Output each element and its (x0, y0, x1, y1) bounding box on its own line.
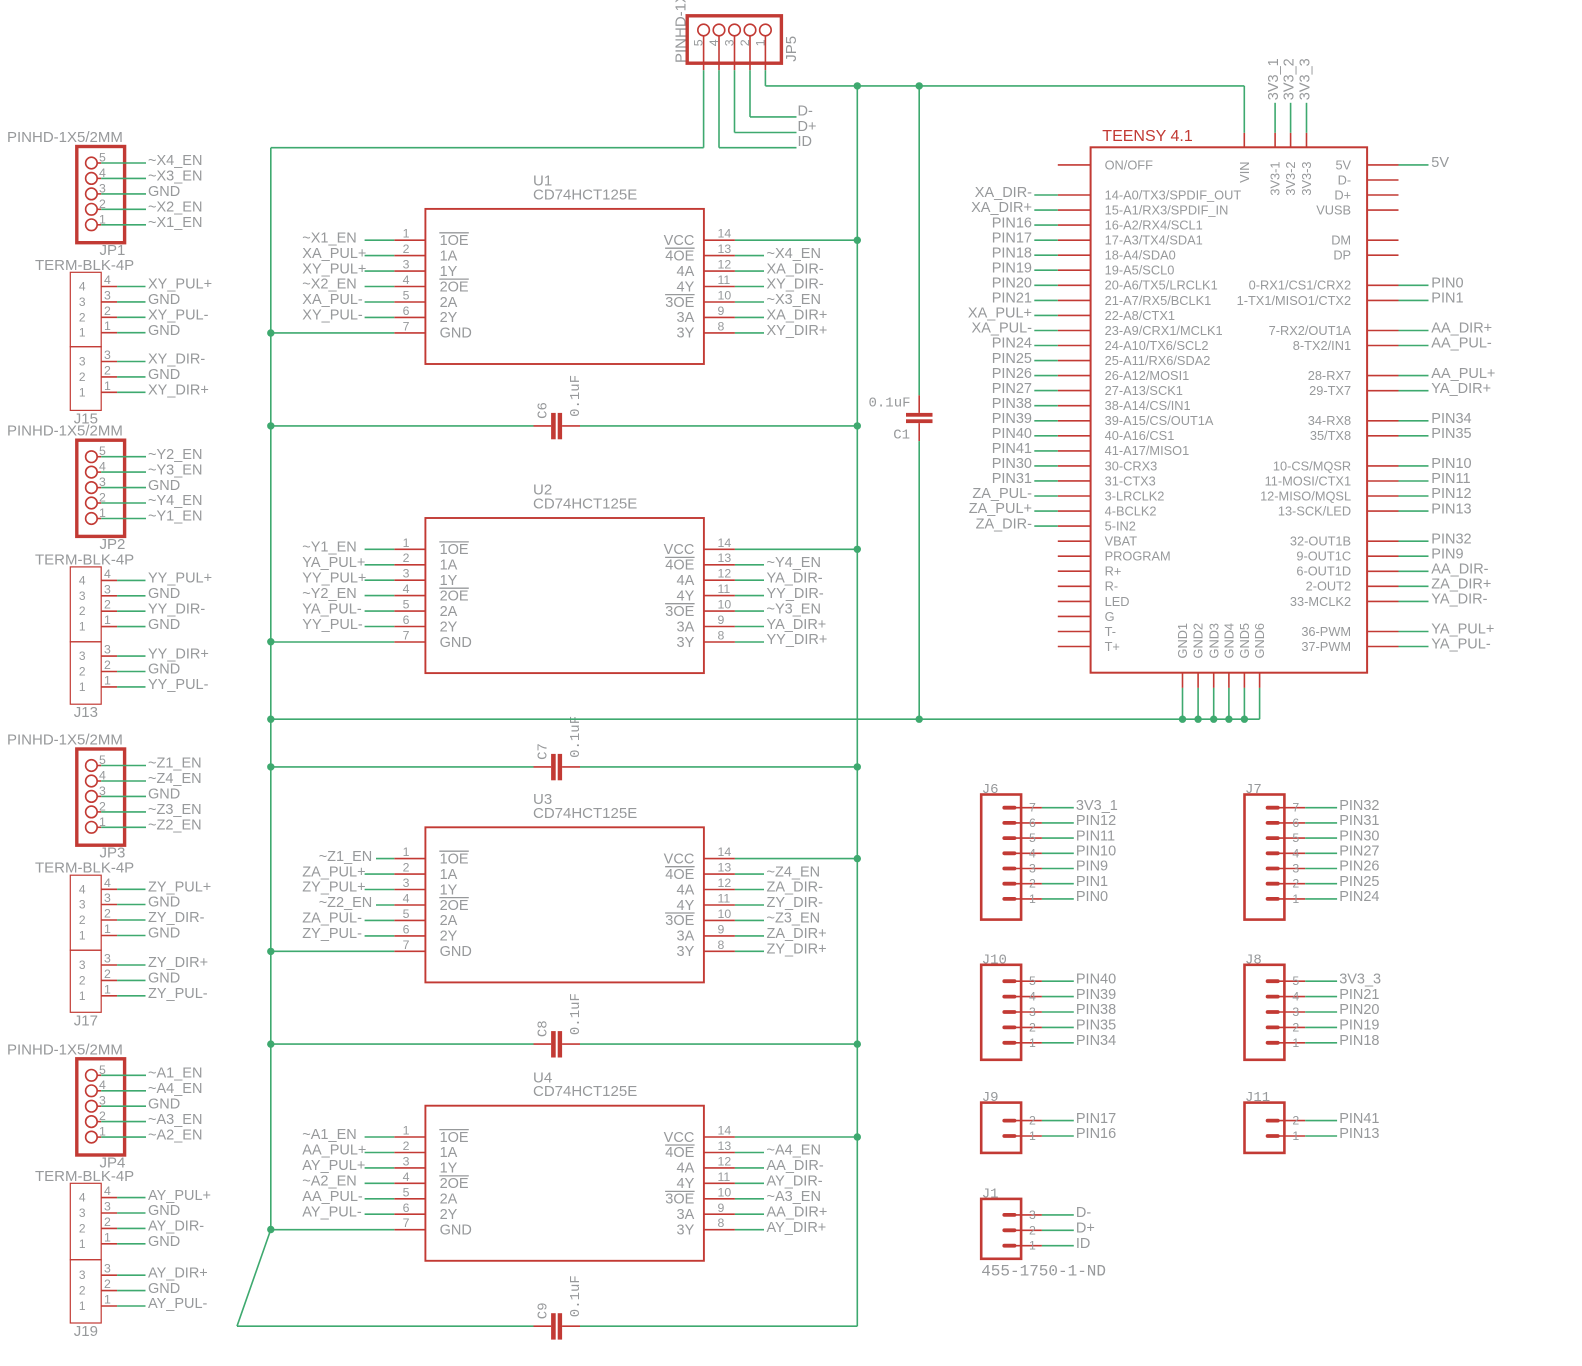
svg-text:J7: J7 (1245, 782, 1262, 798)
svg-text:1A: 1A (440, 558, 458, 574)
svg-text:GND2: GND2 (1191, 623, 1206, 659)
svg-text:YY_DIR-: YY_DIR- (767, 586, 824, 602)
svg-text:2A: 2A (440, 604, 458, 620)
svg-text:TEENSY 4.1: TEENSY 4.1 (1102, 128, 1193, 145)
svg-text:J10: J10 (982, 952, 1007, 968)
svg-text:YA_DIR+: YA_DIR+ (1431, 381, 1491, 397)
svg-text:12: 12 (718, 567, 732, 581)
svg-text:~X1_EN: ~X1_EN (148, 215, 202, 231)
svg-text:XY_DIR-: XY_DIR- (767, 277, 824, 293)
svg-text:7-RX2/OUT1A: 7-RX2/OUT1A (1269, 323, 1352, 338)
svg-text:4OE: 4OE (665, 1145, 694, 1161)
svg-text:PIN34: PIN34 (1076, 1033, 1116, 1049)
svg-text:16-A2/RX4/SCL1: 16-A2/RX4/SCL1 (1105, 218, 1203, 233)
svg-text:2: 2 (1029, 1020, 1036, 1034)
svg-text:14-A0/TX3/SPDIF_OUT: 14-A0/TX3/SPDIF_OUT (1105, 187, 1242, 202)
svg-text:4Y: 4Y (677, 588, 695, 604)
svg-text:AA_DIR+: AA_DIR+ (1431, 321, 1492, 337)
svg-text:1: 1 (1029, 1239, 1036, 1253)
svg-text:2Y: 2Y (440, 619, 458, 635)
svg-text:~Y2_EN: ~Y2_EN (302, 586, 356, 602)
svg-text:VCC: VCC (664, 542, 695, 558)
svg-text:27-A13/SCK1: 27-A13/SCK1 (1105, 383, 1183, 398)
svg-text:38-A14/CS/IN1: 38-A14/CS/IN1 (1105, 398, 1191, 413)
svg-text:TERM-BLK-4P: TERM-BLK-4P (35, 257, 134, 274)
svg-text:XA_PUL-: XA_PUL- (302, 292, 363, 308)
svg-text:1: 1 (79, 929, 86, 943)
svg-text:12-MISO/MQSL: 12-MISO/MQSL (1260, 488, 1351, 503)
svg-text:2OE: 2OE (440, 898, 469, 914)
svg-text:1: 1 (403, 227, 410, 241)
svg-text:PIN24: PIN24 (992, 336, 1032, 352)
svg-text:PIN13: PIN13 (1339, 1126, 1379, 1142)
svg-text:3OE: 3OE (665, 913, 694, 929)
svg-text:2A: 2A (440, 913, 458, 929)
svg-text:YA_PUL+: YA_PUL+ (1431, 622, 1494, 638)
svg-text:0.1uF: 0.1uF (568, 1275, 584, 1317)
svg-text:3: 3 (1029, 1005, 1036, 1019)
svg-text:1: 1 (1029, 892, 1036, 906)
svg-text:PIN41: PIN41 (1339, 1111, 1379, 1127)
svg-text:PIN31: PIN31 (992, 471, 1032, 487)
svg-text:~X2_EN: ~X2_EN (302, 277, 356, 293)
svg-text:J8: J8 (1245, 952, 1262, 968)
svg-text:PIN35: PIN35 (1076, 1018, 1116, 1034)
svg-text:D-: D- (798, 103, 813, 119)
svg-text:D+: D+ (1076, 1221, 1095, 1237)
svg-text:3: 3 (104, 1200, 111, 1214)
svg-text:1: 1 (403, 845, 410, 859)
svg-text:XA_DIR+: XA_DIR+ (767, 308, 828, 324)
svg-text:AY_PUL-: AY_PUL- (302, 1205, 362, 1221)
svg-text:4OE: 4OE (665, 248, 694, 264)
svg-text:2: 2 (1029, 877, 1036, 891)
svg-text:PIN26: PIN26 (1339, 859, 1379, 875)
svg-text:3: 3 (104, 952, 111, 966)
svg-text:CD74HCT125E: CD74HCT125E (533, 496, 637, 513)
svg-text:4: 4 (104, 1184, 111, 1198)
svg-text:TERM-BLK-4P: TERM-BLK-4P (35, 860, 134, 877)
svg-text:PIN1: PIN1 (1076, 874, 1108, 890)
svg-text:PIN17: PIN17 (1076, 1111, 1116, 1127)
svg-text:2: 2 (104, 598, 111, 612)
svg-text:2: 2 (1292, 1020, 1299, 1034)
svg-text:AA_PUL-: AA_PUL- (1431, 336, 1492, 352)
svg-text:4: 4 (104, 567, 111, 581)
svg-text:3: 3 (1292, 1005, 1299, 1019)
svg-text:GND: GND (148, 617, 180, 633)
svg-text:PIN13: PIN13 (1431, 501, 1471, 517)
svg-text:2: 2 (104, 658, 111, 672)
svg-text:R-: R- (1105, 579, 1119, 594)
svg-text:PIN27: PIN27 (992, 381, 1032, 397)
svg-text:25-A11/RX6/SDA2: 25-A11/RX6/SDA2 (1105, 353, 1211, 368)
svg-text:9-OUT1C: 9-OUT1C (1296, 549, 1351, 564)
svg-text:13: 13 (718, 242, 732, 256)
svg-text:1: 1 (104, 379, 111, 393)
svg-text:J6: J6 (982, 782, 999, 798)
svg-text:PIN16: PIN16 (1076, 1126, 1116, 1142)
svg-text:AY_DIR+: AY_DIR+ (148, 1265, 208, 1281)
svg-text:24-A10/TX6/SCL2: 24-A10/TX6/SCL2 (1105, 338, 1209, 353)
svg-text:3: 3 (104, 1262, 111, 1276)
svg-text:34-RX8: 34-RX8 (1308, 413, 1351, 428)
svg-text:AA_DIR-: AA_DIR- (767, 1158, 824, 1174)
svg-text:1: 1 (104, 673, 111, 687)
svg-text:PIN9: PIN9 (1076, 859, 1108, 875)
svg-text:7: 7 (1029, 801, 1036, 815)
svg-text:39-A15/CS/OUT1A: 39-A15/CS/OUT1A (1105, 413, 1214, 428)
svg-text:~A3_EN: ~A3_EN (767, 1189, 821, 1205)
svg-text:XA_PUL-: XA_PUL- (972, 321, 1033, 337)
svg-text:GND: GND (148, 184, 180, 200)
svg-text:PIN19: PIN19 (1339, 1018, 1379, 1034)
svg-text:~X3_EN: ~X3_EN (148, 169, 202, 185)
svg-text:14: 14 (718, 845, 732, 859)
svg-text:1: 1 (79, 620, 86, 634)
svg-text:2: 2 (1029, 1223, 1036, 1237)
svg-text:4-BCLK2: 4-BCLK2 (1105, 504, 1157, 519)
svg-text:~A2_EN: ~A2_EN (148, 1127, 202, 1143)
svg-text:1: 1 (1292, 1036, 1299, 1050)
svg-text:1A: 1A (440, 1145, 458, 1161)
svg-text:8-TX2/IN1: 8-TX2/IN1 (1293, 338, 1351, 353)
svg-text:1: 1 (1292, 892, 1299, 906)
svg-text:2: 2 (79, 665, 86, 679)
svg-text:ZA_DIR+: ZA_DIR+ (767, 926, 827, 942)
svg-text:TERM-BLK-4P: TERM-BLK-4P (35, 551, 134, 568)
svg-text:2: 2 (79, 370, 86, 384)
svg-text:1OE: 1OE (440, 851, 469, 867)
svg-text:ZA_DIR-: ZA_DIR- (767, 880, 824, 896)
svg-text:11: 11 (718, 892, 731, 906)
svg-text:8: 8 (718, 319, 725, 333)
svg-text:7: 7 (403, 1216, 410, 1230)
svg-text:10: 10 (718, 1185, 732, 1199)
svg-text:~A4_EN: ~A4_EN (148, 1081, 202, 1097)
svg-text:5: 5 (403, 1185, 410, 1199)
svg-text:J13: J13 (74, 704, 98, 721)
svg-text:1-TX1/MISO1/CTX2: 1-TX1/MISO1/CTX2 (1237, 293, 1352, 308)
svg-text:5V: 5V (1431, 155, 1449, 171)
svg-text:XY_PUL-: XY_PUL- (148, 308, 209, 324)
svg-text:12: 12 (718, 258, 732, 272)
svg-text:4: 4 (79, 1191, 86, 1205)
svg-text:1: 1 (79, 1237, 86, 1251)
svg-text:9: 9 (718, 304, 725, 318)
svg-text:PIN19: PIN19 (992, 260, 1032, 276)
svg-text:AY_PUL+: AY_PUL+ (148, 1188, 211, 1204)
svg-text:0.1uF: 0.1uF (568, 375, 584, 417)
svg-text:4: 4 (79, 280, 86, 294)
svg-text:3V3-1: 3V3-1 (1268, 162, 1283, 196)
svg-text:0-RX1/CS1/CRX2: 0-RX1/CS1/CRX2 (1249, 278, 1351, 293)
svg-text:XY_PUL+: XY_PUL+ (148, 277, 212, 293)
svg-text:D-: D- (1338, 172, 1352, 187)
svg-text:2: 2 (104, 304, 111, 318)
svg-text:1OE: 1OE (440, 233, 469, 249)
svg-text:1Y: 1Y (440, 264, 458, 280)
svg-text:4: 4 (104, 876, 111, 890)
svg-text:ZY_DIR+: ZY_DIR+ (767, 942, 827, 958)
svg-text:7: 7 (403, 938, 410, 952)
svg-text:XA_DIR+: XA_DIR+ (971, 200, 1032, 216)
svg-text:LED: LED (1105, 594, 1130, 609)
svg-text:AY_PUL+: AY_PUL+ (302, 1158, 365, 1174)
svg-text:1: 1 (1029, 1129, 1036, 1143)
svg-text:PIN18: PIN18 (992, 245, 1032, 261)
svg-text:VUSB: VUSB (1316, 203, 1351, 218)
svg-text:2: 2 (403, 242, 410, 256)
svg-text:10: 10 (718, 598, 732, 612)
svg-text:8: 8 (718, 1216, 725, 1230)
svg-text:YA_PUL+: YA_PUL+ (302, 555, 365, 571)
svg-text:3OE: 3OE (665, 1192, 694, 1208)
svg-text:VIN: VIN (1237, 162, 1252, 183)
svg-text:CD74HCT125E: CD74HCT125E (533, 1083, 637, 1100)
svg-text:1: 1 (754, 39, 768, 46)
svg-text:GND: GND (148, 323, 180, 339)
svg-text:2: 2 (738, 39, 752, 46)
svg-text:PIN20: PIN20 (992, 276, 1032, 292)
svg-text:3-LRCLK2: 3-LRCLK2 (1105, 488, 1165, 503)
svg-text:3V3-2: 3V3-2 (1283, 162, 1298, 196)
svg-text:4Y: 4Y (677, 1176, 695, 1192)
svg-text:PIN11: PIN11 (1076, 828, 1115, 844)
svg-text:5: 5 (403, 907, 410, 921)
svg-text:2: 2 (79, 310, 86, 324)
svg-text:ZA_PUL+: ZA_PUL+ (969, 501, 1032, 517)
svg-text:GND: GND (148, 1096, 180, 1112)
svg-text:2: 2 (79, 1221, 86, 1235)
svg-text:~A4_EN: ~A4_EN (767, 1143, 821, 1159)
svg-text:40-A16/CS1: 40-A16/CS1 (1105, 428, 1175, 443)
svg-text:5: 5 (1292, 831, 1299, 845)
svg-text:~Y1_EN: ~Y1_EN (148, 509, 202, 525)
svg-text:R+: R+ (1105, 564, 1122, 579)
svg-text:2OE: 2OE (440, 588, 469, 604)
svg-text:13-SCK/LED: 13-SCK/LED (1278, 504, 1351, 519)
svg-text:5: 5 (1292, 974, 1299, 988)
svg-text:CD74HCT125E: CD74HCT125E (533, 186, 637, 203)
svg-text:1: 1 (104, 613, 111, 627)
svg-text:PROGRAM: PROGRAM (1105, 549, 1171, 564)
svg-text:GND3: GND3 (1206, 623, 1221, 659)
svg-text:PIN10: PIN10 (1076, 844, 1116, 860)
svg-text:GND1: GND1 (1175, 623, 1190, 659)
svg-text:6: 6 (1029, 816, 1036, 830)
svg-text:J11: J11 (1245, 1090, 1270, 1106)
svg-text:3: 3 (79, 1206, 86, 1220)
svg-text:ON/OFF: ON/OFF (1105, 157, 1154, 172)
svg-text:4A: 4A (677, 264, 695, 280)
svg-text:~X4_EN: ~X4_EN (148, 153, 202, 169)
svg-text:4: 4 (79, 882, 86, 896)
svg-text:GND: GND (148, 586, 180, 602)
svg-text:XY_DIR+: XY_DIR+ (148, 383, 209, 399)
svg-text:5: 5 (692, 39, 706, 46)
svg-text:5: 5 (1029, 831, 1036, 845)
svg-text:3OE: 3OE (665, 295, 694, 311)
svg-text:ID: ID (1076, 1236, 1091, 1252)
svg-text:AA_PUL+: AA_PUL+ (302, 1143, 366, 1159)
svg-text:VBAT: VBAT (1105, 534, 1138, 549)
svg-text:33-MCLK2: 33-MCLK2 (1290, 594, 1351, 609)
svg-text:YY_PUL+: YY_PUL+ (302, 570, 366, 586)
svg-text:GND: GND (440, 1223, 472, 1239)
svg-text:ZA_PUL-: ZA_PUL- (302, 911, 362, 927)
svg-text:ZA_PUL-: ZA_PUL- (972, 486, 1032, 502)
svg-text:455-1750-1-ND: 455-1750-1-ND (981, 1263, 1106, 1281)
svg-text:AA_PUL+: AA_PUL+ (1431, 366, 1495, 382)
svg-text:PIN20: PIN20 (1339, 1002, 1379, 1018)
svg-text:PIN39: PIN39 (992, 411, 1032, 427)
svg-text:C7: C7 (536, 743, 552, 760)
svg-text:35/TX8: 35/TX8 (1310, 428, 1351, 443)
svg-text:3: 3 (403, 567, 410, 581)
svg-text:2: 2 (1292, 1114, 1299, 1128)
svg-text:~X2_EN: ~X2_EN (148, 200, 202, 216)
svg-text:PIN41: PIN41 (992, 441, 1032, 457)
svg-text:2: 2 (79, 604, 86, 618)
svg-text:3V3_3: 3V3_3 (1339, 971, 1381, 987)
svg-text:3: 3 (79, 958, 86, 972)
svg-text:YY_DIR-: YY_DIR- (148, 601, 205, 617)
svg-text:18-A4/SDA0: 18-A4/SDA0 (1105, 248, 1176, 263)
svg-text:~A2_EN: ~A2_EN (302, 1174, 356, 1190)
svg-text:1: 1 (1292, 1129, 1299, 1143)
svg-text:2: 2 (403, 861, 410, 875)
svg-text:PIN12: PIN12 (1431, 486, 1471, 502)
svg-text:AA_DIR+: AA_DIR+ (767, 1205, 828, 1221)
svg-text:4A: 4A (677, 573, 695, 589)
svg-text:~Y2_EN: ~Y2_EN (148, 447, 202, 463)
svg-text:1A: 1A (440, 867, 458, 883)
svg-text:YY_PUL-: YY_PUL- (302, 617, 363, 633)
svg-text:3V3-3: 3V3-3 (1299, 162, 1314, 196)
svg-text:PIN38: PIN38 (1076, 1002, 1116, 1018)
svg-text:T-: T- (1105, 624, 1116, 639)
svg-text:3A: 3A (677, 929, 695, 945)
svg-text:XY_DIR+: XY_DIR+ (767, 323, 828, 339)
svg-text:1: 1 (79, 385, 86, 399)
svg-text:PIN35: PIN35 (1431, 426, 1471, 442)
svg-text:PIN18: PIN18 (1339, 1033, 1379, 1049)
svg-text:3V3_1: 3V3_1 (1076, 798, 1118, 814)
svg-text:PIN0: PIN0 (1076, 889, 1108, 905)
svg-text:~Y1_EN: ~Y1_EN (302, 540, 356, 556)
svg-text:28-RX7: 28-RX7 (1308, 368, 1351, 383)
svg-text:4: 4 (1029, 990, 1036, 1004)
svg-text:3: 3 (1292, 862, 1299, 876)
svg-text:ID: ID (798, 134, 813, 150)
svg-text:YA_DIR-: YA_DIR- (767, 570, 823, 586)
svg-text:4A: 4A (677, 882, 695, 898)
svg-text:12: 12 (718, 1154, 732, 1168)
svg-text:3: 3 (104, 348, 111, 362)
svg-text:J19: J19 (74, 1323, 98, 1340)
svg-text:PIN38: PIN38 (992, 396, 1032, 412)
svg-text:PIN24: PIN24 (1339, 889, 1379, 905)
svg-text:1: 1 (1029, 1036, 1036, 1050)
svg-text:C9: C9 (536, 1302, 552, 1319)
svg-text:3: 3 (1029, 1208, 1036, 1222)
svg-text:9: 9 (718, 922, 725, 936)
svg-text:8: 8 (718, 938, 725, 952)
svg-text:6-OUT1D: 6-OUT1D (1296, 564, 1351, 579)
svg-text:PIN12: PIN12 (1076, 813, 1116, 829)
svg-text:~A1_EN: ~A1_EN (148, 1066, 202, 1082)
svg-text:4: 4 (79, 573, 86, 587)
svg-text:6: 6 (403, 922, 410, 936)
svg-text:D+: D+ (798, 119, 817, 135)
svg-text:1: 1 (104, 922, 111, 936)
svg-text:4: 4 (1029, 846, 1036, 860)
svg-text:PIN30: PIN30 (992, 456, 1032, 472)
svg-text:2A: 2A (440, 295, 458, 311)
svg-text:XA_DIR-: XA_DIR- (767, 261, 824, 277)
svg-text:3A: 3A (677, 1207, 695, 1223)
svg-text:1: 1 (104, 982, 111, 996)
svg-text:J1: J1 (982, 1186, 999, 1202)
svg-text:1Y: 1Y (440, 1161, 458, 1177)
svg-text:1: 1 (79, 680, 86, 694)
svg-text:VCC: VCC (664, 851, 695, 867)
svg-text:ZA_DIR-: ZA_DIR- (976, 516, 1033, 532)
svg-text:14: 14 (718, 1124, 732, 1138)
svg-text:3Y: 3Y (677, 635, 695, 651)
svg-text:PIN25: PIN25 (1339, 874, 1379, 890)
svg-text:23-A9/CRX1/MCLK1: 23-A9/CRX1/MCLK1 (1105, 323, 1223, 338)
svg-text:YA_DIR+: YA_DIR+ (767, 617, 827, 633)
svg-text:3: 3 (104, 891, 111, 905)
svg-text:4: 4 (403, 582, 410, 596)
svg-text:3Y: 3Y (677, 1223, 695, 1239)
svg-text:~A3_EN: ~A3_EN (148, 1112, 202, 1128)
svg-text:~Z2_EN: ~Z2_EN (319, 895, 373, 911)
svg-text:YA_DIR-: YA_DIR- (1431, 592, 1487, 608)
svg-text:PIN25: PIN25 (992, 351, 1032, 367)
svg-text:2: 2 (403, 1139, 410, 1153)
svg-text:GND: GND (148, 1234, 180, 1250)
svg-text:3V3_3: 3V3_3 (1297, 58, 1313, 100)
svg-text:4OE: 4OE (665, 867, 694, 883)
svg-text:XY_DIR-: XY_DIR- (148, 352, 205, 368)
svg-text:1: 1 (104, 319, 111, 333)
svg-text:22-A8/CTX1: 22-A8/CTX1 (1105, 308, 1175, 323)
svg-text:PIN11: PIN11 (1431, 471, 1470, 487)
svg-text:14: 14 (718, 227, 732, 241)
svg-text:ZY_DIR-: ZY_DIR- (767, 895, 824, 911)
svg-text:4: 4 (403, 273, 410, 287)
svg-text:11: 11 (718, 273, 731, 287)
svg-text:PIN40: PIN40 (992, 426, 1032, 442)
svg-text:YY_DIR+: YY_DIR+ (767, 632, 828, 648)
svg-text:3OE: 3OE (665, 604, 694, 620)
svg-text:PIN32: PIN32 (1339, 798, 1379, 814)
svg-text:4Y: 4Y (677, 279, 695, 295)
svg-text:7: 7 (403, 629, 410, 643)
svg-text:3: 3 (1029, 862, 1036, 876)
svg-text:XY_PUL+: XY_PUL+ (302, 261, 366, 277)
svg-text:6: 6 (403, 613, 410, 627)
svg-text:3V3_2: 3V3_2 (1281, 58, 1297, 100)
svg-text:PIN0: PIN0 (1431, 276, 1463, 292)
svg-text:VCC: VCC (664, 233, 695, 249)
svg-text:0.1uF: 0.1uF (568, 993, 584, 1035)
svg-text:~Z4_EN: ~Z4_EN (767, 864, 821, 880)
svg-text:1: 1 (79, 1299, 86, 1313)
